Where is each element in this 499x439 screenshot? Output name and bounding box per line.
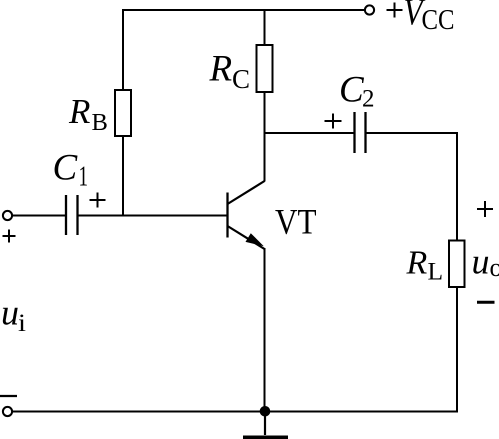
svg-text:i: i bbox=[18, 310, 26, 337]
svg-text:R: R bbox=[209, 49, 233, 90]
svg-text:R: R bbox=[406, 245, 428, 282]
svg-text:u: u bbox=[472, 242, 490, 282]
wire RC branch upper bbox=[264, 9, 266, 45]
label RL bbox=[406, 245, 444, 286]
svg-text:C: C bbox=[53, 148, 79, 189]
plus sign at C2 bbox=[325, 114, 342, 129]
label uo bbox=[472, 242, 499, 283]
resistor RC bbox=[257, 45, 273, 92]
wire RC branch lower / collector bbox=[264, 92, 266, 182]
plus sign output bbox=[477, 201, 493, 217]
svg-text:2: 2 bbox=[362, 86, 375, 113]
svg-text:u: u bbox=[1, 293, 19, 333]
terminal input bottom bbox=[3, 407, 12, 416]
label C2 bbox=[339, 70, 375, 113]
plus sign at C1 bbox=[90, 193, 106, 208]
svg-text:C: C bbox=[232, 64, 250, 94]
wire top rail bbox=[122, 9, 365, 11]
wire bottom rail bbox=[13, 411, 459, 413]
wire C1 to base bbox=[78, 215, 228, 217]
wire VCC lead bbox=[353, 9, 365, 11]
label +VCC bbox=[387, 0, 455, 36]
label ui bbox=[1, 293, 26, 338]
svg-text:CC: CC bbox=[422, 5, 455, 36]
wire output branch lower bbox=[456, 287, 458, 412]
node emitter/ground junction bbox=[260, 406, 271, 417]
svg-text:VT: VT bbox=[275, 202, 317, 242]
transistor VT bbox=[228, 181, 265, 249]
terminal input top bbox=[3, 211, 12, 220]
svg-text:B: B bbox=[92, 109, 108, 136]
label RB bbox=[68, 92, 108, 136]
wire output branch upper bbox=[456, 132, 458, 241]
capacitor C2 bbox=[355, 112, 366, 153]
plus sign input bbox=[3, 230, 16, 243]
minus sign output bbox=[477, 301, 495, 304]
wire RB branch lower bbox=[122, 136, 124, 217]
wire collector node to C2 bbox=[265, 132, 354, 134]
minus sign input bbox=[0, 395, 17, 397]
terminal VCC bbox=[365, 5, 374, 14]
label RC bbox=[209, 49, 251, 95]
wire C2 to output branch bbox=[367, 132, 459, 134]
svg-text:L: L bbox=[428, 257, 444, 286]
label C1 bbox=[53, 148, 89, 193]
ground bbox=[243, 411, 288, 439]
svg-text:R: R bbox=[68, 92, 90, 131]
wire RB branch upper bbox=[122, 9, 124, 90]
capacitor C1 bbox=[66, 195, 78, 235]
resistor RL bbox=[449, 241, 465, 288]
svg-text:1: 1 bbox=[79, 162, 89, 193]
svg-text:o: o bbox=[490, 253, 499, 282]
wire input to C1 bbox=[13, 215, 66, 217]
wire emitter vertical bbox=[264, 248, 266, 412]
transistor emitter arrow bbox=[246, 233, 264, 246]
resistor RB bbox=[115, 90, 131, 136]
